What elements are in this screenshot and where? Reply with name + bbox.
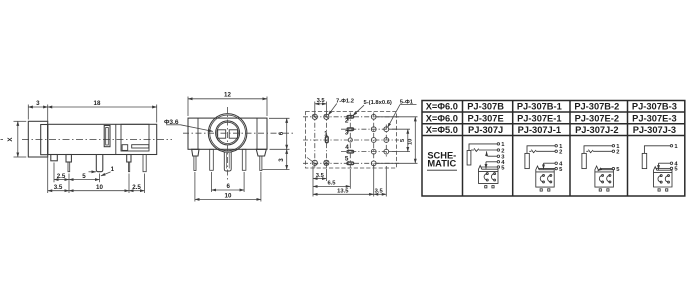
front pin4 xyxy=(242,149,246,170)
dim 3 line xyxy=(28,106,47,108)
contact C right s4 xyxy=(665,176,668,183)
colA holes 5-phi1 xyxy=(371,114,376,119)
svg-text:2: 2 xyxy=(501,148,504,154)
dim 5 xyxy=(69,179,100,181)
wire pin4 s2 xyxy=(544,162,556,164)
pcb top dims xyxy=(314,102,316,115)
svg-text:18: 18 xyxy=(94,100,101,107)
dim 6 bottom xyxy=(212,189,245,191)
slot 5 xyxy=(347,162,354,165)
jack barrel s1 xyxy=(467,151,471,166)
svg-text:12: 12 xyxy=(224,92,231,99)
dim 12 line xyxy=(188,98,267,100)
svg-text:PJ-307B-2: PJ-307B-2 xyxy=(574,102,619,112)
contact C left s3 xyxy=(599,175,602,182)
solder lug squares s3 xyxy=(599,189,601,191)
svg-text:2.5: 2.5 xyxy=(132,184,141,191)
dim X line xyxy=(17,121,19,157)
svg-text:10: 10 xyxy=(96,184,103,191)
corner holes 7-phi1.2 xyxy=(312,114,317,119)
svg-text:6: 6 xyxy=(278,131,285,135)
slot 3 xyxy=(347,128,354,131)
front vertical centerline xyxy=(227,107,229,181)
wire pin1 s1 xyxy=(469,144,497,151)
right dims ext xyxy=(269,117,290,119)
body xyxy=(48,124,157,154)
svg-text:10: 10 xyxy=(408,139,414,145)
svg-text:5: 5 xyxy=(345,156,349,163)
circles xyxy=(208,114,247,153)
table frame xyxy=(422,101,685,197)
svg-text:6: 6 xyxy=(226,183,230,190)
wire pin1 s4 xyxy=(644,146,670,154)
front pin2 xyxy=(210,149,214,170)
contact C left s1 xyxy=(484,174,487,180)
bushing inner flange xyxy=(41,125,48,155)
svg-text:PJ-307B-3: PJ-307B-3 xyxy=(632,102,677,112)
wire pin5 s4 xyxy=(655,167,670,169)
svg-text:2: 2 xyxy=(345,118,349,125)
svg-text:PJ-307E: PJ-307E xyxy=(468,113,504,123)
wire pin5 s2 xyxy=(538,168,555,170)
dim 6 right xyxy=(286,118,288,149)
svg-text:2.5: 2.5 xyxy=(57,173,66,180)
svg-text:X=Φ5.0: X=Φ5.0 xyxy=(426,125,458,135)
wire pin2 s1 xyxy=(471,148,497,151)
dim 3 right xyxy=(286,149,288,169)
jack barrel s2 xyxy=(525,153,529,168)
middle circle in slot column xyxy=(348,138,352,142)
svg-text:PJ-307E-3: PJ-307E-3 xyxy=(632,113,676,123)
svg-text:2: 2 xyxy=(559,150,562,156)
front right pin xyxy=(260,156,262,171)
contact C left s2 xyxy=(540,175,543,182)
bottom ext lines xyxy=(47,157,49,194)
dim 10 right xyxy=(414,117,416,164)
centerline side view xyxy=(1,139,4,141)
pcb right ext xyxy=(377,116,418,118)
contact C left s4 xyxy=(658,176,661,183)
dim 18 line xyxy=(48,106,157,108)
jack barrel s4 xyxy=(642,153,647,168)
middle pin side xyxy=(96,155,103,172)
internal slot xyxy=(104,126,110,147)
row centerlines xyxy=(303,116,399,118)
svg-text:7-Φ1.2: 7-Φ1.2 xyxy=(336,98,354,104)
dim 2.5 first xyxy=(54,179,69,181)
svg-text:3: 3 xyxy=(36,100,40,107)
leader 5-slot xyxy=(353,105,364,116)
schematic 3 PJ-307-2 xyxy=(582,145,615,192)
wire pin5 s3 xyxy=(602,168,613,170)
svg-text:3.5: 3.5 xyxy=(375,189,384,195)
switch block s2 xyxy=(536,166,554,187)
dim 10 line xyxy=(69,190,129,192)
switch block s1 xyxy=(479,165,499,183)
solder lug squares s2 xyxy=(540,189,542,191)
svg-text:3.5: 3.5 xyxy=(54,184,63,191)
dim 1 arrows xyxy=(89,171,97,173)
contact C right s2 xyxy=(548,175,551,182)
switch block s3 xyxy=(595,166,614,187)
colB holes xyxy=(384,127,389,132)
svg-text:10: 10 xyxy=(225,193,232,200)
svg-text:PJ-307B: PJ-307B xyxy=(467,102,504,112)
svg-text:Φ3.6: Φ3.6 xyxy=(164,119,179,126)
wire pin1 s3 xyxy=(584,146,612,154)
svg-text:PJ-307J-3: PJ-307J-3 xyxy=(633,125,676,135)
svg-text:6.5: 6.5 xyxy=(327,181,336,187)
leader 7-phi1.2 xyxy=(328,104,337,116)
svg-text:PJ-307E-2: PJ-307E-2 xyxy=(575,113,619,123)
dim 5 right xyxy=(407,129,409,151)
svg-text:PJ-307E-1: PJ-307E-1 xyxy=(517,113,561,123)
svg-text:X=Φ6.0: X=Φ6.0 xyxy=(426,102,458,112)
internal sub-assembly xyxy=(121,124,149,151)
pcb bottom ext xyxy=(312,166,314,197)
wire pin2 s2 xyxy=(529,150,555,153)
right tab xyxy=(256,149,266,156)
dim 12 ext xyxy=(187,97,189,117)
svg-text:1: 1 xyxy=(111,166,115,173)
dimensions of side view xyxy=(14,105,213,194)
pin 5 side xyxy=(143,155,146,172)
dim 6.5 pcb xyxy=(313,185,350,187)
left tab xyxy=(192,149,199,156)
internal divider xyxy=(115,124,117,154)
slot 4 xyxy=(347,150,354,153)
svg-text:PJ-307B-1: PJ-307B-1 xyxy=(517,102,562,112)
svg-text:3: 3 xyxy=(278,158,285,162)
svg-text:PJ-307J-1: PJ-307J-1 xyxy=(518,125,561,135)
front left pin xyxy=(194,156,196,171)
front middle pin xyxy=(224,152,231,171)
schematic 2 PJ-307-1 xyxy=(525,145,558,192)
wire pin4 s1 xyxy=(486,161,497,163)
wire pin5 s1 xyxy=(481,166,497,168)
svg-text:3.5: 3.5 xyxy=(316,173,325,179)
schematic 1 PJ-307 base xyxy=(467,143,499,188)
dim 10 bottom xyxy=(195,198,261,200)
front horizontal centerline xyxy=(183,132,293,134)
wire pin3 s1 xyxy=(487,155,497,157)
dim 3.5b pcb xyxy=(374,193,387,195)
dashed outline xyxy=(306,112,397,169)
jack barrel s3 xyxy=(582,153,586,168)
svg-text:3.5: 3.5 xyxy=(317,98,326,104)
contact C right s1 xyxy=(491,174,494,180)
slot 2 xyxy=(347,116,354,119)
svg-text:X=Φ6.0: X=Φ6.0 xyxy=(426,113,458,123)
wire pin1 s2 xyxy=(527,146,555,154)
svg-text:4: 4 xyxy=(345,144,349,151)
bottom ext xyxy=(194,172,196,202)
front body xyxy=(188,118,267,149)
pcb number label arrows xyxy=(327,118,349,161)
svg-text:5-Φ1: 5-Φ1 xyxy=(400,99,414,105)
leader 5-phi1 underline xyxy=(400,104,417,106)
svg-text:1: 1 xyxy=(324,130,328,137)
dim 2.5 right xyxy=(129,190,145,192)
leader phi3.6 xyxy=(166,124,181,126)
switch block s4 xyxy=(654,167,673,187)
slot 1 vertical xyxy=(325,137,328,143)
dim X ext lines xyxy=(14,120,27,122)
dim 3 / 18 ext lines xyxy=(27,105,29,120)
pin numbers s4 xyxy=(674,144,678,173)
svg-text:3: 3 xyxy=(345,130,349,137)
pin 2 side xyxy=(66,155,71,163)
svg-text:13.5: 13.5 xyxy=(337,189,349,195)
dim 3.5 line xyxy=(48,190,69,192)
svg-text:PJ-307J-2: PJ-307J-2 xyxy=(575,125,618,135)
wire pin2 s3 xyxy=(586,150,612,153)
contact C right s3 xyxy=(607,175,610,182)
mounting stub pin xyxy=(51,155,58,161)
schematic 4 PJ-307-3 xyxy=(642,145,673,192)
svg-text:5: 5 xyxy=(82,173,86,180)
svg-text:2: 2 xyxy=(616,150,619,156)
dim 13.5 pcb xyxy=(313,193,374,195)
pin numbers s2 xyxy=(559,144,563,173)
wire pin4 s4 xyxy=(659,162,671,164)
solder lug squares s4 xyxy=(658,189,660,191)
pin 4 side xyxy=(127,155,131,163)
svg-text:5-(1.8x0.6): 5-(1.8x0.6) xyxy=(364,100,392,106)
column centerlines xyxy=(314,113,316,168)
contacts xyxy=(218,130,226,138)
bushing outer xyxy=(28,121,47,157)
pin numbers s1 xyxy=(501,142,505,171)
svg-text:PJ-307J: PJ-307J xyxy=(468,125,503,135)
dim 3.5 pcb xyxy=(313,178,326,180)
svg-text:MATIC: MATIC xyxy=(427,159,456,169)
pin numbers s3 xyxy=(616,144,620,173)
solder lug squares s1 xyxy=(485,186,487,188)
